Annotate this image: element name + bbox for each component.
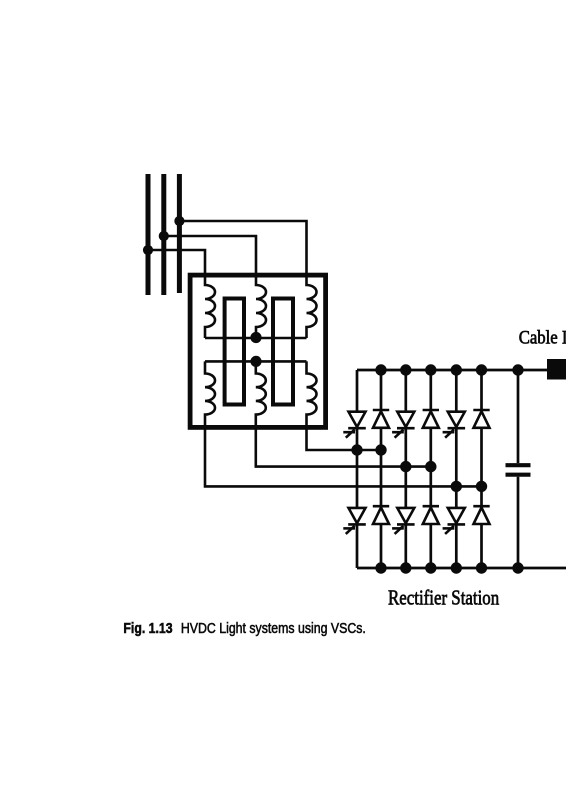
valve leg 1 wires	[356, 370, 359, 568]
valve leg 6 wires	[480, 370, 483, 568]
node AC row3 leg5	[451, 481, 462, 492]
diode valve D4 bottom leg2	[373, 506, 389, 524]
diode valve D6 bottom leg6	[473, 506, 489, 524]
transformer T1 enclosure box	[190, 275, 326, 427]
IGBT valve V5 bottom leg3	[392, 508, 415, 534]
node bus top leg3	[400, 364, 411, 375]
node bus bottom capacitor	[512, 562, 523, 573]
capacitor C1 plates	[506, 465, 531, 475]
node primary neutral	[250, 332, 261, 343]
node AC row2 leg3	[400, 461, 411, 472]
svg-text:Fig. 1.13: Fig. 1.13	[123, 620, 172, 636]
node AC row1 leg2	[375, 444, 386, 455]
three-phase bus bar L3	[177, 174, 182, 293]
valve leg 5 wires	[455, 370, 458, 568]
primary star connection wire	[205, 337, 307, 340]
node bus top leg6	[476, 364, 487, 375]
capacitor C1 bottom wire	[517, 477, 520, 568]
transformer core limb 1	[225, 299, 244, 405]
transformer core limb 2	[273, 299, 293, 405]
node phase C tap	[174, 216, 184, 226]
node bus bottom leg2	[375, 562, 386, 573]
secondary star connection wire	[205, 360, 307, 363]
node bus bottom leg5	[451, 562, 462, 573]
valve leg 2 wires	[380, 370, 383, 568]
three-phase bus bar L2	[161, 174, 166, 295]
node bus top capacitor	[512, 364, 523, 375]
valve leg 4 wires	[429, 370, 432, 568]
secondary coil W6 + wire to valve row legs 1,2	[307, 361, 382, 450]
three-phase bus bar L1	[146, 174, 151, 295]
node AC row2 leg4	[425, 461, 436, 472]
node AC row3 leg6	[476, 481, 487, 492]
svg-text:Cable I: Cable I	[519, 327, 566, 348]
node bus top leg5	[451, 364, 462, 375]
wire phase B to transformer winding 2 + primary coil W2	[164, 236, 266, 338]
node phase A tap	[143, 245, 153, 255]
diode valve D5 bottom leg4	[423, 506, 439, 524]
node AC row1 leg1	[351, 444, 362, 455]
IGBT valve V6 bottom leg5	[443, 508, 466, 534]
valve leg 3 wires	[404, 370, 407, 568]
diode valve D2 top leg4	[423, 410, 439, 428]
DC negative bus	[357, 567, 566, 570]
IGBT valve V4 bottom leg1	[343, 508, 366, 534]
node bus bottom leg6	[476, 562, 487, 573]
node secondary neutral	[250, 356, 261, 367]
node bus top leg4	[425, 364, 436, 375]
node bus top leg2	[375, 364, 386, 375]
secondary coil W4 + wire to valve row legs 5,6	[205, 361, 482, 486]
svg-text:HVDC Light systems using VSCs.: HVDC Light systems using VSCs.	[181, 620, 366, 636]
cable terminal square	[547, 359, 566, 380]
capacitor C1 top wire	[517, 370, 520, 463]
diode valve D1 top leg2	[373, 410, 389, 428]
IGBT valve V2 top leg3	[392, 412, 415, 438]
IGBT valve V1 top leg1	[343, 412, 366, 438]
wire phase A to transformer winding 1 + primary coil W1	[148, 250, 215, 338]
node bus bottom leg4	[425, 562, 436, 573]
IGBT valve V3 top leg5	[443, 412, 466, 438]
wire phase C to transformer winding 3 + primary coil W3	[179, 221, 316, 338]
node phase B tap	[159, 231, 169, 241]
secondary coil W5 + wire to valve row legs 3,4	[256, 361, 431, 466]
svg-text:Rectifier Station: Rectifier Station	[388, 587, 499, 610]
node bus bottom leg3	[400, 562, 411, 573]
DC positive bus	[357, 369, 547, 372]
diode valve D3 top leg6	[473, 410, 489, 428]
